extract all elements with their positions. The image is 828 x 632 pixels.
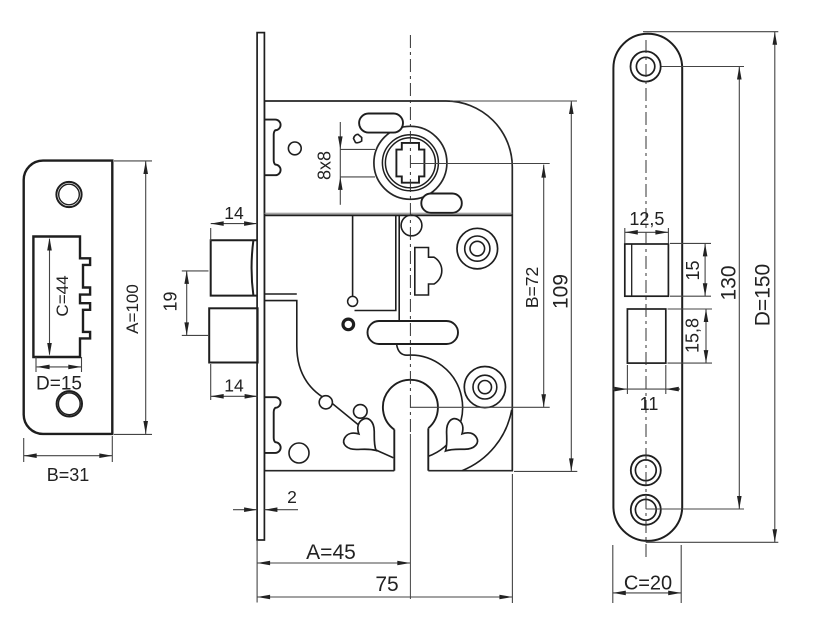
svg-text:130: 130 xyxy=(718,265,741,300)
dimension C=20 xyxy=(613,545,681,603)
spindle centre extension line xyxy=(410,163,549,165)
plate bottom extension xyxy=(646,541,779,543)
small circle near keyhole xyxy=(354,405,368,419)
dimension 15 xyxy=(670,243,711,296)
svg-text:8x8: 8x8 xyxy=(315,151,335,180)
svg-text:15: 15 xyxy=(683,260,703,280)
svg-text:D=150: D=150 xyxy=(752,264,775,326)
left heart tail xyxy=(375,450,393,458)
svg-text:D=15: D=15 xyxy=(36,374,82,395)
top screw hole xyxy=(631,51,661,81)
dimension B=72 xyxy=(522,165,546,408)
bottom screw hole 1 xyxy=(631,455,661,485)
dimension 75 xyxy=(257,474,512,603)
top screw centre extension xyxy=(662,66,745,68)
deadbolt xyxy=(209,308,257,362)
pill cutout top left xyxy=(359,114,403,133)
faceplate side strip xyxy=(257,33,264,540)
svg-text:14: 14 xyxy=(224,203,244,223)
small hole lower left xyxy=(289,443,309,463)
upper side cutout bracket xyxy=(264,120,280,176)
dimension 109 xyxy=(550,101,574,471)
dimension 2 faceplate xyxy=(233,487,298,512)
small blob cutout xyxy=(354,134,362,142)
bottom screw hole 2 xyxy=(631,495,661,525)
dimension 14 top xyxy=(211,203,257,241)
spindle square hole 8x8 xyxy=(396,143,424,183)
latch bevel line xyxy=(631,244,633,296)
svg-text:109: 109 xyxy=(550,274,573,309)
dimension 14 bottom xyxy=(211,364,258,400)
svg-text:C=44: C=44 xyxy=(53,275,72,316)
corner arc bottom right xyxy=(462,410,512,471)
dimension A=100 xyxy=(114,161,152,435)
strike plate cutout with latch tabs xyxy=(33,237,90,358)
svg-text:75: 75 xyxy=(375,573,398,596)
centre line vertical (right view) xyxy=(645,40,647,561)
body top extension line xyxy=(450,100,577,102)
deadbolt cutout xyxy=(627,309,665,363)
svg-text:15,8: 15,8 xyxy=(683,318,703,353)
keyhole circle xyxy=(383,380,438,430)
internal horizontal line double xyxy=(264,212,512,214)
plate top extension xyxy=(643,31,778,33)
faceplate outline xyxy=(613,34,682,541)
dimension 8x8 xyxy=(315,122,375,205)
svg-text:14: 14 xyxy=(224,376,244,396)
dimension D=15 xyxy=(36,357,82,395)
cam follower xyxy=(415,248,442,296)
dimension 15,8 xyxy=(668,309,713,363)
small circle on lever xyxy=(319,396,332,409)
dimension D=150 xyxy=(752,32,778,543)
follower circle below spindle xyxy=(401,215,422,236)
lock body outline xyxy=(264,101,512,471)
svg-text:B=72: B=72 xyxy=(522,267,542,308)
svg-text:12,5: 12,5 xyxy=(629,209,664,229)
interior latch guide lines xyxy=(264,294,358,425)
body bottom extension line xyxy=(514,470,577,472)
keyhole slot xyxy=(393,430,395,471)
dimension 130 xyxy=(718,67,742,510)
dimension C=44 xyxy=(47,238,72,357)
left heart cutout xyxy=(341,416,388,464)
latch bolt xyxy=(211,240,257,295)
dimension 11 xyxy=(613,365,680,414)
pill cutout middle xyxy=(368,321,459,344)
svg-text:19: 19 xyxy=(161,291,181,311)
spindle follower outer circle xyxy=(374,126,447,199)
right heart cutout xyxy=(433,416,481,463)
svg-text:2: 2 xyxy=(287,487,297,507)
svg-text:C=20: C=20 xyxy=(624,573,672,595)
pin circle xyxy=(348,296,358,306)
pill cutout right of spindle xyxy=(421,194,462,213)
interior rectangle xyxy=(353,216,396,311)
svg-text:A=45: A=45 xyxy=(306,541,356,564)
dimension 19 xyxy=(161,271,210,336)
strike plate outline xyxy=(24,161,113,434)
dimension 12,5 xyxy=(625,209,669,243)
central bar xyxy=(398,216,400,322)
center line vertical (middle view) xyxy=(409,35,411,434)
rivet bullet xyxy=(343,319,354,330)
svg-text:B=31: B=31 xyxy=(47,465,90,485)
screw post upper xyxy=(457,228,498,269)
dimension A=45 xyxy=(257,541,410,565)
svg-text:11: 11 xyxy=(640,394,659,414)
screw post lower xyxy=(464,367,505,408)
strike plate screw hole bottom xyxy=(57,391,82,416)
small hole upper left xyxy=(288,142,301,155)
svg-text:A=100: A=100 xyxy=(123,284,142,334)
spring arc around keyhole xyxy=(397,345,463,456)
spindle rings xyxy=(382,135,438,191)
dimension B=31 xyxy=(24,436,113,485)
faceplate lower extension line xyxy=(256,541,258,603)
latch cutout xyxy=(625,244,669,296)
lower side cutout bracket xyxy=(264,397,280,453)
strike plate screw hole top xyxy=(56,182,81,207)
bottom screw centre extension xyxy=(646,508,744,510)
keyhole centre extension line xyxy=(411,406,550,408)
